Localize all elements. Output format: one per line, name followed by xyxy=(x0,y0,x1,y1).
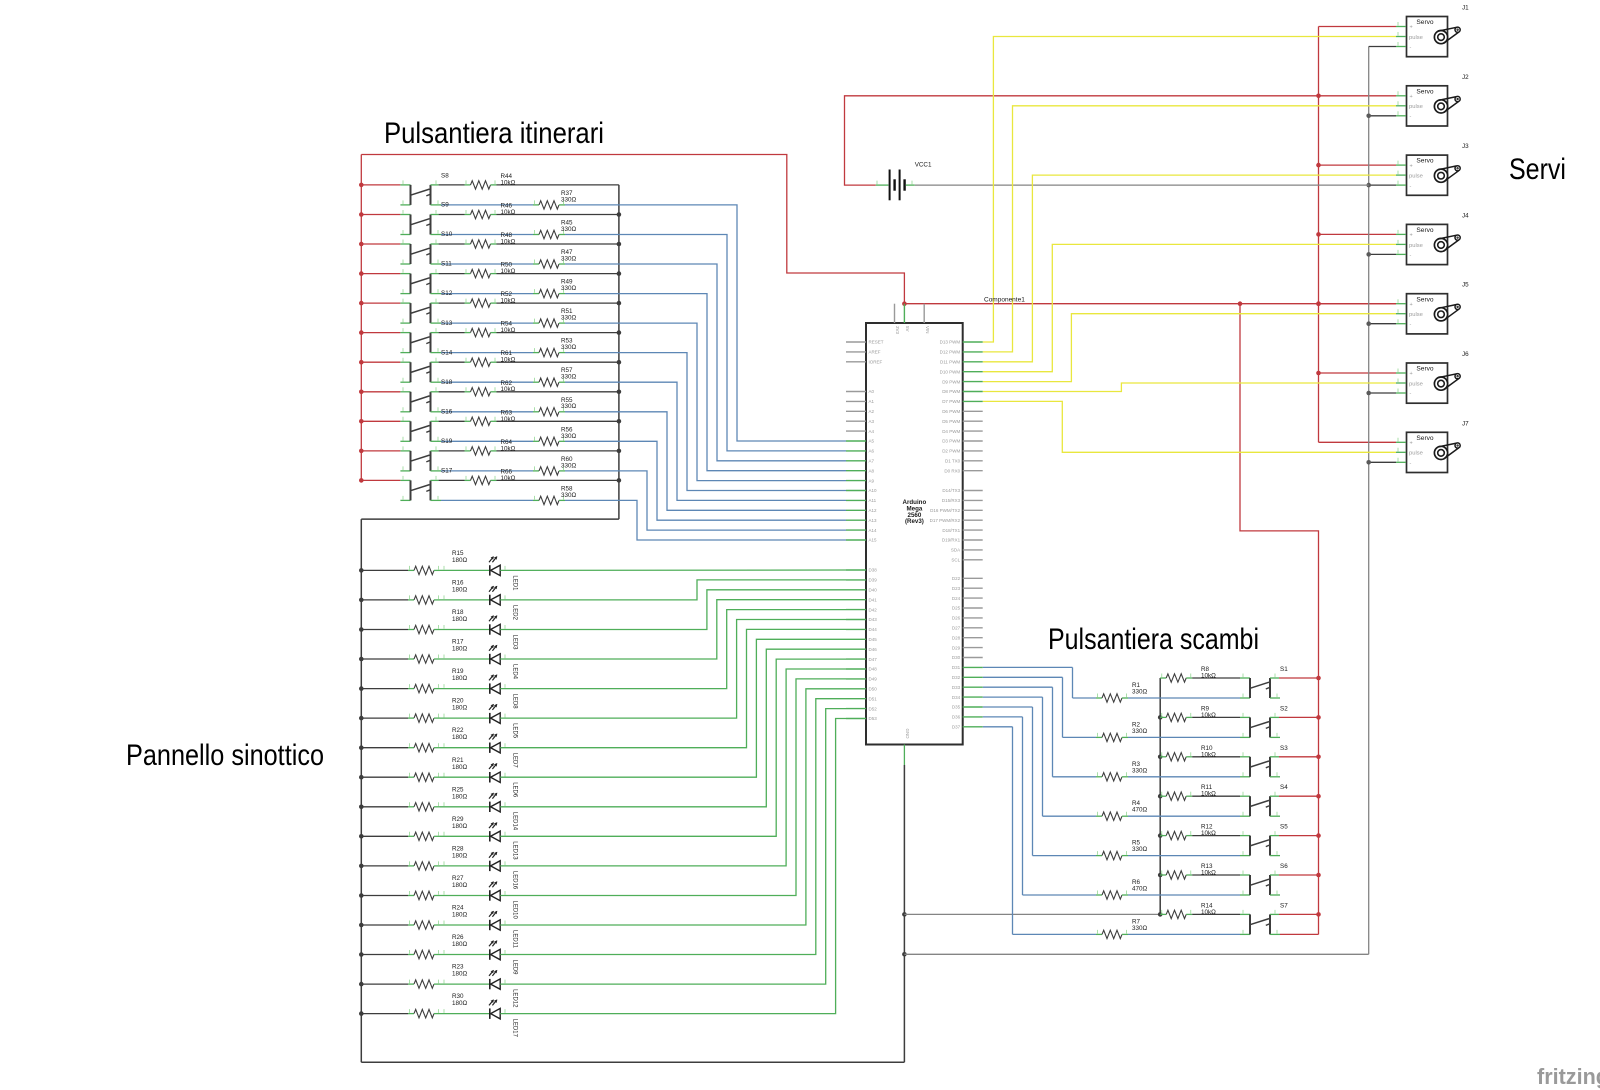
svg-text:R23: R23 xyxy=(452,964,464,971)
svg-text:A6: A6 xyxy=(869,449,875,454)
svg-text:-: - xyxy=(1410,253,1412,259)
svg-text:pulse: pulse xyxy=(1409,35,1423,41)
svg-text:10kΩ: 10kΩ xyxy=(1201,751,1216,758)
svg-text:R17: R17 xyxy=(452,639,464,646)
svg-text:D26: D26 xyxy=(952,616,961,621)
svg-text:S10: S10 xyxy=(441,231,453,238)
svg-text:R20: R20 xyxy=(452,698,464,705)
svg-text:-: - xyxy=(1410,114,1412,120)
svg-text:D33: D33 xyxy=(952,685,961,690)
svg-text:fritzing: fritzing xyxy=(1537,1064,1600,1089)
svg-text:pulse: pulse xyxy=(1409,381,1423,387)
svg-text:S1: S1 xyxy=(1280,666,1288,673)
svg-text:10kΩ: 10kΩ xyxy=(1201,673,1216,680)
svg-text:D48: D48 xyxy=(869,667,878,672)
svg-text:J6: J6 xyxy=(1462,351,1469,358)
svg-text:180Ω: 180Ω xyxy=(452,941,468,948)
svg-text:10kΩ: 10kΩ xyxy=(501,386,516,393)
svg-text:470Ω: 470Ω xyxy=(1132,807,1148,814)
svg-text:LED5: LED5 xyxy=(511,723,517,739)
svg-text:D25: D25 xyxy=(952,606,961,611)
svg-text:S5: S5 xyxy=(1280,824,1288,831)
svg-text:VCC1: VCC1 xyxy=(915,162,932,169)
svg-text:R30: R30 xyxy=(452,993,464,1000)
svg-text:R28: R28 xyxy=(452,845,464,852)
svg-text:180Ω: 180Ω xyxy=(452,823,468,830)
svg-text:(Rev3): (Rev3) xyxy=(905,518,924,525)
svg-text:A3: A3 xyxy=(869,419,875,424)
svg-text:D3 PWM: D3 PWM xyxy=(942,439,960,444)
svg-text:pulse: pulse xyxy=(1409,104,1423,110)
svg-text:S6: S6 xyxy=(1280,863,1288,870)
svg-text:D17 PWM/RX2: D17 PWM/RX2 xyxy=(930,518,961,523)
svg-text:10kΩ: 10kΩ xyxy=(501,445,516,452)
svg-text:10kΩ: 10kΩ xyxy=(1201,712,1216,719)
svg-text:S7: S7 xyxy=(1280,902,1288,909)
svg-text:J2: J2 xyxy=(1462,74,1469,81)
svg-text:10kΩ: 10kΩ xyxy=(501,209,516,216)
svg-text:D46: D46 xyxy=(869,647,878,652)
svg-text:D4 PWM: D4 PWM xyxy=(942,429,960,434)
svg-text:A10: A10 xyxy=(869,488,878,493)
svg-text:10kΩ: 10kΩ xyxy=(501,298,516,305)
svg-text:180Ω: 180Ω xyxy=(452,646,468,653)
svg-text:D6 PWM: D6 PWM xyxy=(942,409,960,414)
svg-text:D5 PWM: D5 PWM xyxy=(942,419,960,424)
svg-text:D22: D22 xyxy=(952,576,961,581)
svg-text:LED4: LED4 xyxy=(511,664,517,680)
svg-text:330Ω: 330Ω xyxy=(561,403,577,410)
svg-text:J5: J5 xyxy=(1462,282,1469,289)
svg-text:Servo: Servo xyxy=(1416,158,1434,165)
svg-text:180Ω: 180Ω xyxy=(452,675,468,682)
svg-text:180Ω: 180Ω xyxy=(452,912,468,919)
svg-text:330Ω: 330Ω xyxy=(561,285,577,292)
svg-text:D30: D30 xyxy=(952,655,961,660)
svg-text:D43: D43 xyxy=(869,617,878,622)
svg-text:D13 PWM: D13 PWM xyxy=(940,340,961,345)
svg-text:IOREF: IOREF xyxy=(869,360,883,365)
svg-text:D15/RX3: D15/RX3 xyxy=(942,498,961,503)
svg-text:330Ω: 330Ω xyxy=(1132,767,1148,774)
svg-text:180Ω: 180Ω xyxy=(452,852,468,859)
svg-text:D1 TX0: D1 TX0 xyxy=(945,459,961,464)
svg-text:VIN: VIN xyxy=(925,326,930,334)
svg-text:LED13: LED13 xyxy=(511,841,517,860)
svg-text:D10 PWM: D10 PWM xyxy=(940,369,961,374)
svg-text:D0 RX0: D0 RX0 xyxy=(944,468,960,473)
svg-text:LED1: LED1 xyxy=(511,575,517,591)
svg-text:180Ω: 180Ω xyxy=(452,882,468,889)
svg-text:R22: R22 xyxy=(452,727,464,734)
svg-text:D40: D40 xyxy=(869,588,878,593)
svg-text:R19: R19 xyxy=(452,668,464,675)
svg-text:SCL: SCL xyxy=(951,558,960,563)
svg-text:330Ω: 330Ω xyxy=(1132,846,1148,853)
svg-text:D23: D23 xyxy=(952,586,961,591)
svg-text:R21: R21 xyxy=(452,757,464,764)
svg-text:10kΩ: 10kΩ xyxy=(501,416,516,423)
svg-text:S3: S3 xyxy=(1280,745,1288,752)
svg-text:R15: R15 xyxy=(452,550,464,557)
svg-text:180Ω: 180Ω xyxy=(452,1000,468,1007)
svg-text:A0: A0 xyxy=(869,389,875,394)
svg-text:Servo: Servo xyxy=(1416,19,1434,26)
svg-text:-: - xyxy=(1410,391,1412,397)
svg-text:180Ω: 180Ω xyxy=(452,616,468,623)
svg-text:D42: D42 xyxy=(869,607,878,612)
svg-text:10kΩ: 10kΩ xyxy=(1201,909,1216,916)
svg-text:Pulsantiera scambi: Pulsantiera scambi xyxy=(1048,623,1259,656)
svg-text:LED17: LED17 xyxy=(511,1019,517,1038)
svg-text:RESET: RESET xyxy=(869,340,884,345)
svg-text:180Ω: 180Ω xyxy=(452,793,468,800)
svg-text:A12: A12 xyxy=(869,508,878,513)
svg-text:330Ω: 330Ω xyxy=(561,226,577,233)
svg-text:D12 PWM: D12 PWM xyxy=(940,350,961,355)
svg-text:LED7: LED7 xyxy=(511,753,517,769)
svg-text:AREF: AREF xyxy=(869,350,881,355)
svg-text:180Ω: 180Ω xyxy=(452,557,468,564)
svg-text:A7: A7 xyxy=(869,459,875,464)
svg-text:+: + xyxy=(1410,233,1413,239)
svg-text:D27: D27 xyxy=(952,626,961,631)
svg-text:330Ω: 330Ω xyxy=(561,433,577,440)
svg-text:10kΩ: 10kΩ xyxy=(501,268,516,275)
svg-text:Componente1: Componente1 xyxy=(984,297,1025,304)
svg-text:D47: D47 xyxy=(869,657,878,662)
svg-text:R26: R26 xyxy=(452,934,464,941)
svg-text:LED16: LED16 xyxy=(511,871,517,890)
svg-text:LED9: LED9 xyxy=(511,960,517,976)
svg-text:pulse: pulse xyxy=(1409,243,1423,249)
svg-text:S2: S2 xyxy=(1280,705,1288,712)
svg-text:LED3: LED3 xyxy=(511,635,517,651)
svg-text:GND: GND xyxy=(905,729,910,740)
svg-text:S19: S19 xyxy=(441,438,453,445)
svg-text:+: + xyxy=(1410,163,1413,169)
svg-text:+: + xyxy=(1410,302,1413,308)
svg-text:D49: D49 xyxy=(869,677,878,682)
svg-text:D28: D28 xyxy=(952,635,961,640)
svg-text:pulse: pulse xyxy=(1409,312,1423,318)
svg-text:S8: S8 xyxy=(441,173,449,180)
svg-text:Pulsantiera itinerari: Pulsantiera itinerari xyxy=(384,117,604,150)
svg-text:-: - xyxy=(1410,183,1412,189)
svg-text:J4: J4 xyxy=(1462,212,1469,219)
svg-text:180Ω: 180Ω xyxy=(452,705,468,712)
svg-text:A4: A4 xyxy=(869,429,875,434)
svg-text:10kΩ: 10kΩ xyxy=(1201,791,1216,798)
svg-text:J3: J3 xyxy=(1462,143,1469,150)
svg-text:LED6: LED6 xyxy=(511,782,517,798)
svg-text:D31: D31 xyxy=(952,665,961,670)
svg-text:D16 PWM/TX2: D16 PWM/TX2 xyxy=(930,508,961,513)
svg-text:pulse: pulse xyxy=(1409,174,1423,180)
svg-text:S12: S12 xyxy=(441,290,453,297)
svg-text:Servo: Servo xyxy=(1416,227,1434,234)
svg-text:+: + xyxy=(1410,371,1413,377)
svg-text:LED14: LED14 xyxy=(511,812,517,831)
svg-text:Servo: Servo xyxy=(1416,366,1434,373)
svg-text:D8 PWM: D8 PWM xyxy=(942,389,960,394)
svg-text:10kΩ: 10kΩ xyxy=(1201,870,1216,877)
svg-text:330Ω: 330Ω xyxy=(561,315,577,322)
svg-text:A15: A15 xyxy=(869,538,878,543)
svg-text:5V: 5V xyxy=(905,326,910,332)
svg-text:A5: A5 xyxy=(869,439,875,444)
svg-text:330Ω: 330Ω xyxy=(561,374,577,381)
svg-text:10kΩ: 10kΩ xyxy=(501,475,516,482)
svg-text:+: + xyxy=(1410,25,1413,31)
svg-text:LED11: LED11 xyxy=(511,930,517,949)
svg-text:R25: R25 xyxy=(452,786,464,793)
svg-text:180Ω: 180Ω xyxy=(452,586,468,593)
svg-text:3V3: 3V3 xyxy=(895,326,900,335)
svg-text:Pannello sinottico: Pannello sinottico xyxy=(126,739,324,772)
svg-text:D19/RX1: D19/RX1 xyxy=(942,538,961,543)
svg-text:A8: A8 xyxy=(869,468,875,473)
svg-text:D9 PWM: D9 PWM xyxy=(942,379,960,384)
svg-text:D37: D37 xyxy=(952,725,961,730)
svg-text:LED2: LED2 xyxy=(511,605,517,621)
svg-text:180Ω: 180Ω xyxy=(452,734,468,741)
svg-text:A2: A2 xyxy=(869,409,875,414)
svg-text:+: + xyxy=(1410,94,1413,100)
svg-text:R29: R29 xyxy=(452,816,464,823)
svg-text:D29: D29 xyxy=(952,645,961,650)
svg-text:S16: S16 xyxy=(441,408,453,415)
svg-text:S11: S11 xyxy=(441,261,452,268)
svg-text:S9: S9 xyxy=(441,202,449,209)
svg-text:D36: D36 xyxy=(952,715,961,720)
svg-text:R24: R24 xyxy=(452,905,464,912)
svg-text:D32: D32 xyxy=(952,675,961,680)
svg-text:-: - xyxy=(1410,322,1412,328)
svg-text:LED8: LED8 xyxy=(511,694,517,710)
svg-text:-: - xyxy=(1410,45,1412,51)
svg-text:D52: D52 xyxy=(869,706,878,711)
svg-text:10kΩ: 10kΩ xyxy=(501,179,516,186)
svg-text:R16: R16 xyxy=(452,579,464,586)
svg-text:D44: D44 xyxy=(869,627,878,632)
svg-text:A13: A13 xyxy=(869,518,878,523)
svg-text:D53: D53 xyxy=(869,716,878,721)
svg-text:D39: D39 xyxy=(869,578,878,583)
svg-text:D7 PWM: D7 PWM xyxy=(942,399,960,404)
svg-text:J1: J1 xyxy=(1462,5,1469,12)
svg-text:180Ω: 180Ω xyxy=(452,764,468,771)
svg-text:S18: S18 xyxy=(441,379,453,386)
svg-text:S17: S17 xyxy=(441,468,453,475)
svg-text:D35: D35 xyxy=(952,705,961,710)
svg-text:+: + xyxy=(1410,441,1413,447)
svg-text:A14: A14 xyxy=(869,528,878,533)
svg-text:LED10: LED10 xyxy=(511,901,517,920)
svg-text:A9: A9 xyxy=(869,478,875,483)
svg-text:J7: J7 xyxy=(1462,420,1469,427)
svg-text:330Ω: 330Ω xyxy=(1132,728,1148,735)
svg-text:10kΩ: 10kΩ xyxy=(1201,830,1216,837)
svg-text:10kΩ: 10kΩ xyxy=(501,327,516,334)
svg-text:Servo: Servo xyxy=(1416,296,1434,303)
svg-text:D51: D51 xyxy=(869,696,878,701)
svg-text:330Ω: 330Ω xyxy=(561,256,577,263)
svg-text:D50: D50 xyxy=(869,687,878,692)
svg-text:330Ω: 330Ω xyxy=(561,462,577,469)
svg-text:D24: D24 xyxy=(952,596,961,601)
svg-text:180Ω: 180Ω xyxy=(452,971,468,978)
svg-text:A1: A1 xyxy=(869,399,875,404)
svg-text:A11: A11 xyxy=(869,498,877,503)
svg-text:D34: D34 xyxy=(952,695,961,700)
svg-text:470Ω: 470Ω xyxy=(1132,886,1148,893)
svg-text:D18/TX1: D18/TX1 xyxy=(942,528,960,533)
svg-text:S14: S14 xyxy=(441,349,453,356)
svg-text:D38: D38 xyxy=(869,568,878,573)
svg-text:330Ω: 330Ω xyxy=(561,492,577,499)
svg-text:Servo: Servo xyxy=(1416,88,1434,95)
svg-text:330Ω: 330Ω xyxy=(561,344,577,351)
svg-text:pulse: pulse xyxy=(1409,451,1423,457)
svg-text:S13: S13 xyxy=(441,320,453,327)
svg-text:Servi: Servi xyxy=(1509,153,1566,186)
svg-text:LED12: LED12 xyxy=(511,989,517,1008)
svg-text:D45: D45 xyxy=(869,637,878,642)
svg-text:10kΩ: 10kΩ xyxy=(501,239,516,246)
svg-text:10kΩ: 10kΩ xyxy=(501,357,516,364)
svg-text:330Ω: 330Ω xyxy=(1132,925,1148,932)
svg-text:S4: S4 xyxy=(1280,784,1288,791)
svg-text:330Ω: 330Ω xyxy=(561,196,577,203)
svg-text:R18: R18 xyxy=(452,609,464,616)
svg-text:R27: R27 xyxy=(452,875,464,882)
svg-text:-: - xyxy=(1410,461,1412,467)
svg-text:D11 PWM: D11 PWM xyxy=(940,360,960,365)
svg-text:D41: D41 xyxy=(869,597,878,602)
svg-text:330Ω: 330Ω xyxy=(1132,689,1148,696)
svg-text:D2 PWM: D2 PWM xyxy=(942,449,960,454)
svg-text:D14/TX3: D14/TX3 xyxy=(942,488,960,493)
svg-text:SDA: SDA xyxy=(951,548,960,553)
svg-text:Servo: Servo xyxy=(1416,435,1434,442)
